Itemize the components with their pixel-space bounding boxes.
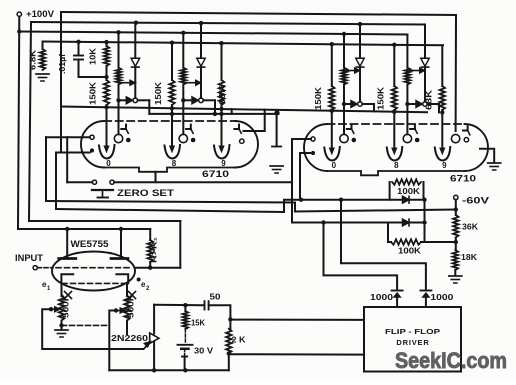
svg-text:+100V: +100V — [26, 9, 54, 19]
svg-text:2 K: 2 K — [232, 335, 247, 345]
svg-text:100K: 100K — [397, 186, 421, 196]
svg-text:500K: 500K — [62, 294, 71, 318]
svg-text:100K: 100K — [398, 246, 422, 256]
svg-text:6710: 6710 — [450, 174, 476, 184]
svg-text:SeekIC.com: SeekIC.com — [395, 348, 507, 373]
svg-text:68K: 68K — [218, 85, 227, 105]
svg-text:150K: 150K — [314, 87, 323, 110]
svg-text:18K: 18K — [461, 252, 478, 262]
svg-text:FLIP - FLOP: FLIP - FLOP — [385, 327, 440, 336]
svg-text:.01µf: .01µf — [58, 54, 67, 74]
svg-text:1000: 1000 — [430, 292, 453, 302]
svg-text:WE5755: WE5755 — [71, 239, 109, 249]
svg-text:30 V: 30 V — [194, 346, 213, 356]
svg-text:R>R₁: R>R₁ — [150, 237, 159, 263]
svg-text:150K: 150K — [154, 82, 163, 105]
svg-text:6710: 6710 — [202, 169, 229, 179]
svg-text:6.8K: 6.8K — [29, 50, 38, 70]
svg-text:8: 8 — [394, 161, 399, 170]
svg-text:ZERO SET: ZERO SET — [117, 188, 175, 198]
svg-text:50: 50 — [210, 292, 221, 302]
svg-text:DRIVER: DRIVER — [396, 338, 429, 347]
svg-text:15K: 15K — [191, 318, 206, 328]
svg-text:0: 0 — [332, 161, 337, 170]
svg-text:36K: 36K — [462, 222, 479, 232]
svg-text:2N2260: 2N2260 — [111, 334, 149, 343]
svg-text:68K: 68K — [424, 90, 433, 110]
svg-text:-60V: -60V — [462, 196, 489, 206]
svg-text:1000: 1000 — [370, 292, 393, 302]
svg-text:10K: 10K — [89, 48, 98, 65]
svg-text:150K: 150K — [376, 87, 385, 110]
svg-text:9: 9 — [442, 161, 447, 170]
svg-text:500K: 500K — [127, 294, 136, 318]
svg-text:150K: 150K — [89, 82, 98, 105]
svg-text:INPUT: INPUT — [15, 253, 44, 263]
